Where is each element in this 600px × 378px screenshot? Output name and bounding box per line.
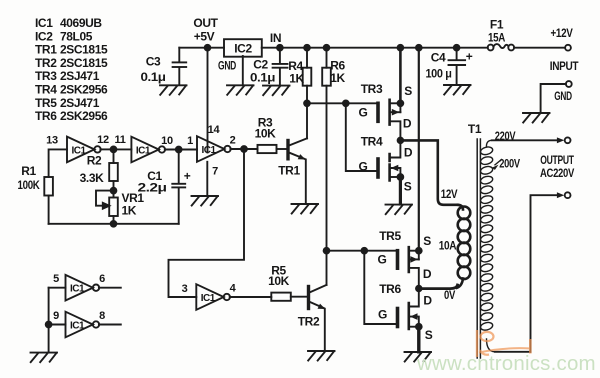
svg-text:GND: GND (218, 59, 237, 73)
label GND (IC2) (218, 59, 237, 73)
transistor TR2 (309, 285, 327, 351)
capacitor C1 (172, 150, 185, 224)
svg-text:IC1: IC1 (201, 145, 216, 156)
svg-text:F1: F1 (490, 18, 504, 32)
ground (spare inputs) (31, 353, 58, 363)
svg-text:+12V: +12V (551, 26, 573, 40)
watermark logo strokes (477, 330, 531, 357)
svg-text:www.cntronics.com: www.cntronics.com (416, 352, 596, 375)
svg-text:78L05: 78L05 (60, 29, 93, 43)
label R6 value (330, 59, 345, 86)
labels TR6 pins (378, 282, 433, 342)
inverter IC1 pins3-4 (196, 284, 271, 310)
svg-text:2SK2956: 2SK2956 (60, 83, 108, 97)
svg-text:2: 2 (230, 135, 236, 147)
svg-text:TR1: TR1 (278, 164, 300, 178)
svg-text:5: 5 (53, 273, 59, 285)
node IN (277, 45, 283, 51)
svg-text:12V: 12V (441, 187, 458, 201)
node TR2 collector/R6 (324, 248, 330, 254)
svg-text:AC220V: AC220V (540, 166, 574, 180)
svg-text:IC1: IC1 (70, 321, 85, 332)
node TR3 S rail (398, 45, 404, 51)
svg-text:13: 13 (46, 134, 58, 146)
label OUTPUT AC220V (540, 153, 575, 180)
svg-text:D: D (423, 267, 432, 281)
label TR1 (278, 164, 300, 178)
transistor TR4 (378, 140, 400, 204)
svg-text:0.1μ: 0.1μ (250, 71, 275, 85)
wire VR1 wiper (96, 191, 114, 209)
svg-text:+: + (184, 169, 191, 183)
svg-text:6: 6 (99, 273, 105, 285)
svg-text:200V: 200V (499, 157, 520, 171)
label R4 value (288, 59, 304, 86)
label 12V (441, 187, 458, 201)
svg-text:12: 12 (97, 134, 109, 146)
inverter IC1 pins11-10 (131, 137, 197, 163)
svg-text:3: 3 (182, 283, 188, 295)
wire pin11 to inverter (116, 148, 131, 150)
svg-text:G: G (359, 160, 368, 174)
svg-text:TR4: TR4 (361, 135, 383, 149)
label R1 value (18, 164, 41, 192)
inverter IC1 pins1-2 (197, 136, 258, 162)
node pin2 (241, 146, 247, 152)
svg-text:GND: GND (554, 89, 572, 103)
label 220V (495, 129, 516, 143)
wire TR2 collector (326, 251, 328, 285)
svg-text:3.3K: 3.3K (80, 171, 104, 185)
svg-text:D: D (403, 117, 412, 131)
component list (35, 16, 108, 123)
svg-text:TR4: TR4 (35, 83, 57, 97)
ground (IC2) (227, 85, 254, 95)
svg-text:14: 14 (208, 124, 221, 136)
svg-text:T1: T1 (468, 122, 482, 136)
svg-text:220V: 220V (495, 129, 516, 143)
label +12V INPUT (550, 26, 579, 103)
wire +5V/+12V top rail (179, 47, 565, 49)
svg-text:11: 11 (114, 134, 125, 146)
svg-text:1K: 1K (289, 72, 304, 86)
node pin1 (176, 147, 182, 153)
svg-text:8: 8 (99, 310, 105, 322)
node R4 top (304, 45, 310, 51)
svg-text:4069UB: 4069UB (60, 16, 102, 30)
wire feedback bottom (49, 223, 179, 225)
labels TR4 pins (359, 135, 413, 194)
inverter IC1 pins13-12 (67, 137, 111, 163)
ground (pin7) (192, 196, 219, 206)
terminal output 1 (557, 137, 571, 143)
node TR6 source (416, 324, 422, 330)
wire drains to transformer 0V (419, 285, 458, 289)
wire pin14 supply (207, 48, 209, 153)
svg-text:TR2: TR2 (298, 315, 320, 329)
svg-text:0.1μ: 0.1μ (141, 70, 166, 84)
node TR5/TR6 drains (416, 286, 422, 292)
wire TR4 gate bracket (346, 103, 377, 171)
wire spare inputs to ground (48, 288, 50, 353)
transistor TR1 (288, 138, 307, 203)
label F1 value (488, 18, 506, 45)
label R2 value (80, 154, 104, 186)
svg-text:15A: 15A (488, 31, 506, 45)
svg-text:100 μ: 100 μ (426, 67, 452, 81)
svg-text:7: 7 (212, 166, 218, 178)
svg-text:S: S (404, 84, 412, 98)
svg-text:R1: R1 (21, 164, 36, 178)
label TR2 (298, 315, 320, 329)
wire IC2 GND pin (242, 56, 244, 85)
svg-text:10K: 10K (268, 274, 290, 288)
wire drains to transformer 12V (400, 140, 458, 204)
svg-text:TR2: TR2 (35, 56, 57, 70)
svg-text:INPUT: INPUT (550, 59, 579, 73)
wire TR5 source to rail (418, 48, 420, 251)
labels TR3 pins (359, 82, 413, 131)
svg-text:+: + (466, 50, 473, 64)
node spare input (46, 322, 52, 328)
node TR3 source (398, 100, 404, 106)
label R5 value (268, 264, 290, 289)
node VR1 bottom (111, 221, 117, 227)
svg-text:TR1: TR1 (35, 43, 57, 57)
ground (INPUT GND) (523, 113, 550, 123)
resistor R6 (322, 48, 331, 86)
label C3 value (141, 55, 166, 85)
svg-text:10A: 10A (439, 239, 457, 253)
wire pin13 input (49, 149, 67, 177)
svg-text:S: S (425, 328, 433, 342)
svg-text:4: 4 (230, 283, 237, 295)
ground (C2) (263, 86, 290, 96)
wire R6 to TR2 collector (326, 86, 328, 251)
transistor TR5 (398, 247, 419, 288)
svg-text:R2: R2 (87, 154, 102, 168)
wire crosscoupling to lower gate (169, 149, 245, 297)
regulator IC2 (224, 39, 262, 57)
svg-text:IC1: IC1 (201, 293, 216, 304)
labels IC1 in gates (70, 145, 217, 332)
ground (TR4) (386, 205, 413, 215)
node TR5 S rail (416, 45, 422, 51)
resistor R3 (258, 145, 287, 153)
wire secondary 220V to output (492, 139, 557, 141)
svg-text:OUTPUT: OUTPUT (540, 153, 574, 167)
svg-text:1K: 1K (122, 204, 137, 218)
svg-text:C2: C2 (253, 58, 268, 72)
svg-text:C4: C4 (431, 51, 446, 65)
transformer T1 core (477, 139, 480, 358)
svg-text:S: S (404, 180, 412, 194)
terminal +12V INPUT (565, 45, 571, 51)
ground (TR2) (308, 351, 335, 361)
fuse F1 (488, 44, 514, 50)
transistor TR3 (378, 100, 400, 141)
svg-text:IC1: IC1 (71, 145, 86, 156)
node C4 top (454, 45, 460, 51)
inverter IC1 pins5-6 (49, 275, 121, 301)
transformer T1 primary winding (457, 205, 470, 288)
potentiometer VR1 (109, 191, 118, 224)
svg-text:10: 10 (161, 135, 173, 147)
svg-text:IC1: IC1 (70, 284, 85, 295)
svg-text:IC1: IC1 (35, 16, 53, 30)
svg-text:2SC1815: 2SC1815 (60, 56, 108, 70)
svg-text:0V: 0V (444, 288, 455, 302)
label 10A (439, 239, 457, 253)
ground (TR1) (292, 204, 319, 214)
label OUT +5V (193, 16, 218, 44)
svg-text:2.2μ: 2.2μ (138, 181, 167, 195)
label R3 value (255, 116, 277, 141)
resistor R4 (303, 48, 312, 104)
resistor R1 (44, 177, 53, 224)
node upper bracket (343, 100, 349, 106)
svg-text:2SJ471: 2SJ471 (60, 96, 100, 110)
node TR5 source (416, 248, 422, 254)
svg-text:1: 1 (187, 135, 193, 147)
capacitor C3 (173, 48, 187, 85)
tap 200V pointer (492, 160, 502, 170)
label IC2 (234, 41, 252, 55)
node R6 top (324, 45, 330, 51)
wire TR6 gate bracket (364, 251, 396, 324)
label 200V (499, 157, 520, 171)
resistor R5 (271, 293, 307, 301)
svg-text:TR6: TR6 (379, 282, 401, 296)
label T1 (468, 122, 482, 136)
watermark text (416, 352, 596, 375)
svg-text:TR5: TR5 (379, 229, 401, 243)
svg-text:S: S (423, 234, 431, 248)
wire TR1 collector (306, 103, 308, 138)
terminal GND (541, 81, 572, 112)
svg-text:TR3: TR3 (361, 82, 383, 96)
node TR1 collector/R4 (304, 100, 310, 106)
label 0V (444, 288, 455, 302)
svg-text:IC2: IC2 (35, 29, 53, 43)
wire upper gate drive (307, 102, 378, 104)
svg-text:OUT: OUT (193, 16, 218, 30)
svg-text:TR3: TR3 (35, 69, 57, 83)
svg-text:IN: IN (270, 31, 281, 45)
svg-text:TR5: TR5 (35, 96, 57, 110)
ground (TR6) (405, 352, 432, 362)
resistor R2 (109, 149, 118, 190)
capacitor C4 (449, 48, 466, 85)
svg-text:10K: 10K (255, 127, 277, 141)
pin numbers oscillator (46, 124, 236, 322)
label C4 value (426, 50, 473, 81)
node R2/VR1 (111, 188, 117, 194)
node TR4 source (398, 174, 404, 180)
label C1 value (138, 169, 191, 195)
label C2 value (250, 58, 275, 85)
inverter IC1 pins9-8 (49, 312, 121, 338)
node TR3/TR4 drains (398, 138, 404, 144)
wire secondary bottom (495, 351, 531, 353)
svg-text:1K: 1K (330, 71, 345, 85)
label IN (270, 31, 281, 45)
svg-text:2SJ471: 2SJ471 (60, 69, 100, 83)
capacitor C2 (273, 48, 288, 85)
svg-text:2SC1815: 2SC1815 (60, 43, 108, 57)
wire TR3 source to rail (399, 48, 402, 104)
node lower bracket (361, 248, 367, 254)
transformer T1 secondary winding (480, 140, 495, 351)
node pin11 (111, 147, 117, 153)
svg-text:100K: 100K (18, 178, 41, 192)
svg-text:G: G (359, 106, 368, 120)
wire lower gate drive (327, 250, 398, 252)
svg-text:IC1: IC1 (136, 146, 151, 157)
svg-text:+5V: +5V (194, 30, 215, 44)
svg-text:9: 9 (53, 310, 59, 322)
svg-text:IC2: IC2 (234, 41, 252, 55)
svg-text:C3: C3 (146, 55, 161, 69)
svg-text:G: G (378, 308, 387, 322)
svg-text:TR6: TR6 (35, 109, 57, 123)
svg-text:2SK2956: 2SK2956 (60, 109, 108, 123)
svg-text:D: D (423, 294, 432, 308)
wire pin7 to ground (206, 162, 208, 196)
labels TR5 pins (378, 229, 432, 281)
svg-text:D: D (404, 146, 413, 160)
terminal output 2 (531, 192, 571, 351)
ground (C3) (160, 85, 187, 95)
label VR1 value (122, 191, 145, 218)
transistor TR6 (398, 289, 419, 352)
svg-text:G: G (378, 253, 387, 267)
node OUT +5V (205, 45, 211, 51)
ground (C4) (444, 85, 471, 95)
